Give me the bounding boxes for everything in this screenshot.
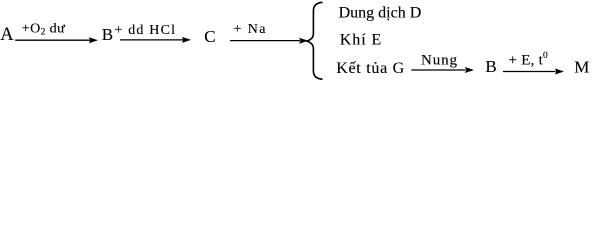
svg-text:Nung: Nung — [421, 53, 458, 69]
svg-text:C: C — [204, 27, 215, 46]
brace — [307, 2, 323, 79]
wire arrow G to B (Nung) — [411, 67, 474, 73]
svg-text:+ E, t0: + E, t0 — [509, 51, 549, 69]
svg-text:B: B — [102, 25, 113, 44]
wire arrow C to brace — [230, 38, 308, 44]
svg-text:Kết tủa G: Kết tủa G — [336, 60, 404, 77]
wire arrow A to B — [15, 37, 98, 43]
svg-text:Dung dịch D: Dung dịch D — [339, 4, 422, 21]
svg-text:B: B — [485, 57, 496, 76]
svg-text:A: A — [0, 25, 14, 45]
wire arrow B to M — [503, 69, 564, 75]
svg-text:M: M — [574, 57, 589, 76]
svg-text:+ dd HCl: + dd HCl — [115, 23, 176, 38]
svg-text:Khí E: Khí E — [340, 31, 382, 48]
svg-text:+ Na: + Na — [234, 22, 267, 37]
wire arrow B to C — [120, 37, 191, 43]
